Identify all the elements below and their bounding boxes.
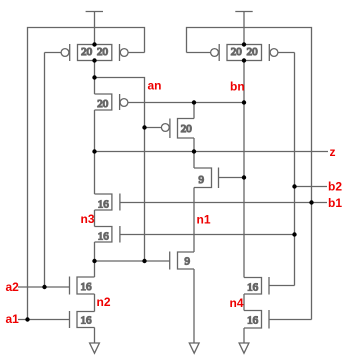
wire left column down to n1 junction and a2 nmos: [94, 242, 96, 277]
wire left column: pmos20 to nmos16 (crosses z): [94, 110, 96, 194]
svg-text:n3: n3: [81, 212, 95, 226]
svg-text:20: 20: [97, 98, 109, 110]
svg-text:20: 20: [81, 46, 93, 58]
svg-text:n4: n4: [230, 296, 244, 310]
wire n2: between a2 and a1 nmos: [94, 294, 96, 312]
svg-text:9: 9: [199, 174, 205, 186]
wire middle column to ground: [193, 269, 195, 343]
junction: nmos9 gate to bn rail: [242, 175, 246, 179]
wire n3: between the two left nmos16: [94, 210, 96, 227]
svg-text:16: 16: [81, 281, 93, 293]
nmos 16 lower left (gate b2): [95, 226, 295, 243]
junction: b2 rail to nmos16 gate wire: [292, 232, 296, 236]
wire bn vertical rail from right pair down to n4 stack: [243, 61, 245, 278]
svg-text:16: 16: [98, 231, 110, 243]
nmos 16 a2 (bottom left stack upper): [18, 277, 95, 295]
pmos pair 20/20 left (gates a2,a1): [45, 44, 145, 61]
svg-text:16: 16: [247, 315, 259, 327]
svg-text:n1: n1: [197, 213, 211, 227]
wire n4: between right stack nmos: [243, 294, 245, 311]
junction: right pair bottom: [242, 58, 246, 62]
ground symbol middle: [189, 343, 199, 353]
junction: b1 tap: [309, 200, 313, 204]
ground symbol left: [90, 343, 100, 353]
junction: z at left column: [92, 149, 96, 153]
pmos 20 single middle column (gate an): [145, 119, 195, 139]
svg-text:a2: a2: [6, 280, 20, 294]
wire left column to ground: [94, 328, 96, 344]
wire b1 horizontal: nmos16 gate across to label b1: [120, 202, 327, 204]
wire b2 net vertical rail: [294, 53, 296, 286]
nmos 16 b2 (bottom right stack upper): [244, 277, 295, 295]
svg-text:20: 20: [247, 46, 259, 58]
wire middle column top: gate net down into middle pmos: [193, 103, 195, 119]
junction: an rail end at n1 wire: [142, 259, 146, 263]
wire b1 net top: left gate of right pmos pair over to right rail: [187, 28, 312, 320]
pmos 20 single left column (gate bn-wire): [95, 94, 245, 110]
nmos 16 a1 (bottom left stack lower): [18, 311, 95, 328]
junction: left pair bottom: [92, 58, 96, 62]
VDD supply right: [235, 12, 252, 45]
junction: vdd to left pair top: [92, 42, 96, 46]
wire node an horizontal to an vertical rail: [95, 78, 145, 262]
svg-text:20: 20: [181, 123, 193, 135]
junction: gate wire to bn rail: [242, 100, 246, 104]
pmos pair 20/20 right (gates b1,b2): [187, 44, 295, 61]
wire right column to ground: [243, 328, 245, 343]
svg-text:b2: b2: [328, 180, 342, 194]
svg-text:9: 9: [184, 255, 190, 267]
wire middle pmos to z line: [193, 138, 195, 152]
ground symbol right: [239, 343, 249, 353]
nmos 16 b1 (bottom right stack lower): [244, 310, 312, 329]
junction: n1 at left column: [92, 259, 96, 263]
svg-text:16: 16: [81, 314, 93, 326]
wire left column: pair bottom to node an to pmos 20: [94, 61, 96, 95]
wire n1 horizontal to gate of lower nmos9: [95, 260, 170, 262]
junction: an rail to middle pmos gate: [142, 125, 146, 129]
wire n1 middle column: nmos9 down to lower nmos9: [193, 188, 195, 253]
junction: gate wire to middle pmos source: [192, 100, 196, 104]
junction: a2 wire to a2 rail: [42, 285, 46, 289]
svg-text:z: z: [330, 145, 336, 159]
nmos 9 upper middle (gate bn): [194, 152, 244, 189]
svg-text:20: 20: [97, 46, 109, 58]
junction: node an tap: [92, 75, 96, 79]
VDD supply left: [86, 12, 103, 45]
nmos 16 upper left (gate b1): [95, 194, 120, 211]
svg-text:20: 20: [231, 46, 243, 58]
junction: z at middle column: [192, 149, 196, 153]
wire a1 net top: left rail corner to right gate of left pmos pair: [28, 28, 145, 320]
wire b2 stub to label: [295, 186, 328, 188]
junction: b2 tap: [292, 184, 296, 188]
wire output z horizontal: [95, 151, 329, 153]
nmos 9 lower middle (gate n1): [170, 252, 194, 270]
svg-text:b1: b1: [328, 196, 342, 210]
wire a2 net vertical rail: [44, 53, 46, 288]
svg-text:an: an: [148, 79, 162, 93]
svg-text:n2: n2: [97, 295, 111, 309]
junction: a1 wire to a1 rail: [25, 317, 29, 321]
svg-text:16: 16: [247, 281, 259, 293]
junction: vdd to right pair top: [242, 42, 246, 46]
svg-text:a1: a1: [6, 312, 20, 326]
svg-text:16: 16: [98, 199, 110, 211]
svg-text:bn: bn: [230, 80, 245, 94]
